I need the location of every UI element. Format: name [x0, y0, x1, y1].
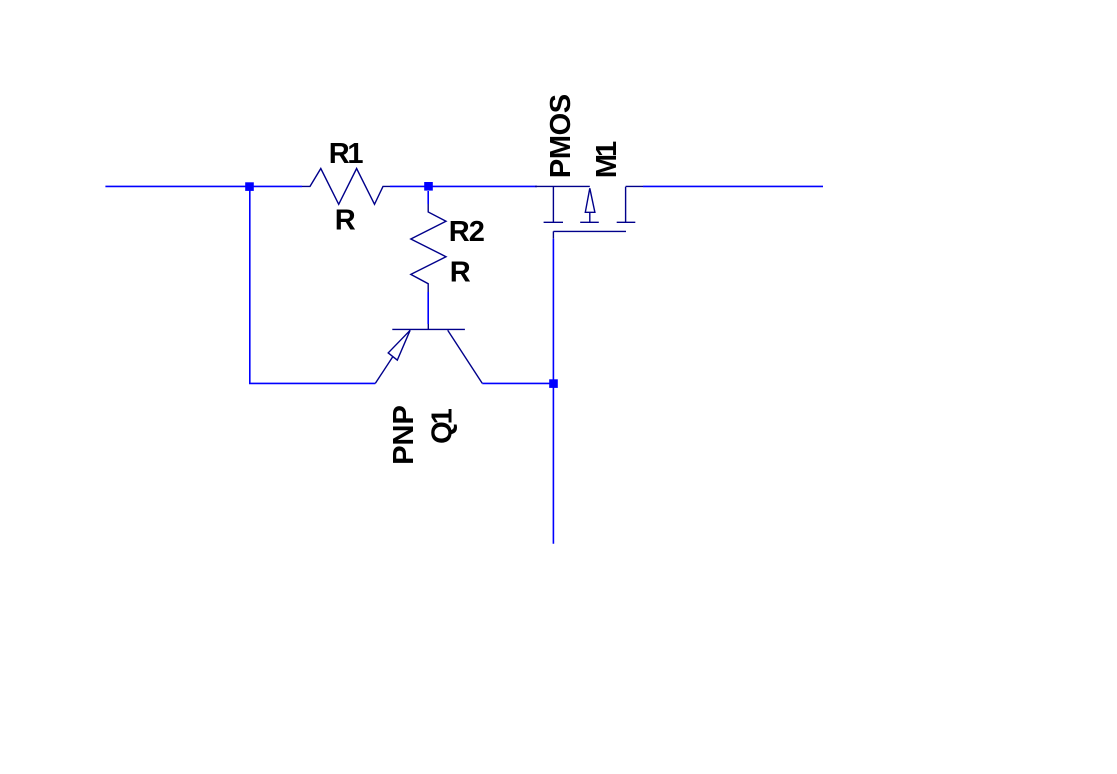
transistor M1 gate line and gate stub [553, 231, 626, 238]
transistor M1 bulk arrow [585, 188, 595, 212]
svg-text:M1: M1 [591, 141, 623, 178]
transistor M1 bulk vertical and bar [580, 212, 599, 222]
svg-text:R: R [450, 256, 471, 288]
svg-text:PNP: PNP [388, 405, 420, 465]
svg-text:R: R [335, 205, 356, 237]
wire: top-right horizontal [643, 185, 823, 187]
transistor M1 drain lead [626, 185, 643, 187]
svg-text:Q1: Q1 [426, 408, 458, 444]
transistor Q1 base lead [427, 324, 429, 329]
transistor Q1 base bar [392, 328, 465, 330]
transistor M1 source lead [535, 185, 590, 187]
transistor M1 drain vertical and bar [617, 187, 636, 223]
wire: top-left horizontal [105, 185, 302, 187]
wire: node down to R2 [427, 191, 429, 204]
node: junction R1/R2 [424, 182, 433, 191]
transistor Q1 emitter arrow [388, 330, 410, 360]
transistor Q1 collector [448, 330, 483, 383]
svg-text:PMOS: PMOS [545, 94, 577, 178]
node: junction of top wire and left branch [245, 182, 254, 191]
transistor M1 source vertical and bar [544, 187, 563, 223]
wire: R2 bottom to Q1 base [427, 292, 429, 324]
resistor R2 [411, 204, 446, 292]
wire: R1 right to PMOS source [390, 185, 537, 187]
node: junction collector / gate wire [549, 379, 558, 388]
svg-text:R1: R1 [329, 138, 364, 170]
wire: Q1 collector to node [482, 382, 554, 384]
wire: gate vertical down [552, 239, 554, 544]
transistor Q1 emitter [375, 330, 410, 383]
svg-text:R2: R2 [449, 216, 484, 248]
resistor R1 [302, 169, 390, 205]
wire: left vertical down from node and across to Q1 emitter [250, 190, 375, 383]
